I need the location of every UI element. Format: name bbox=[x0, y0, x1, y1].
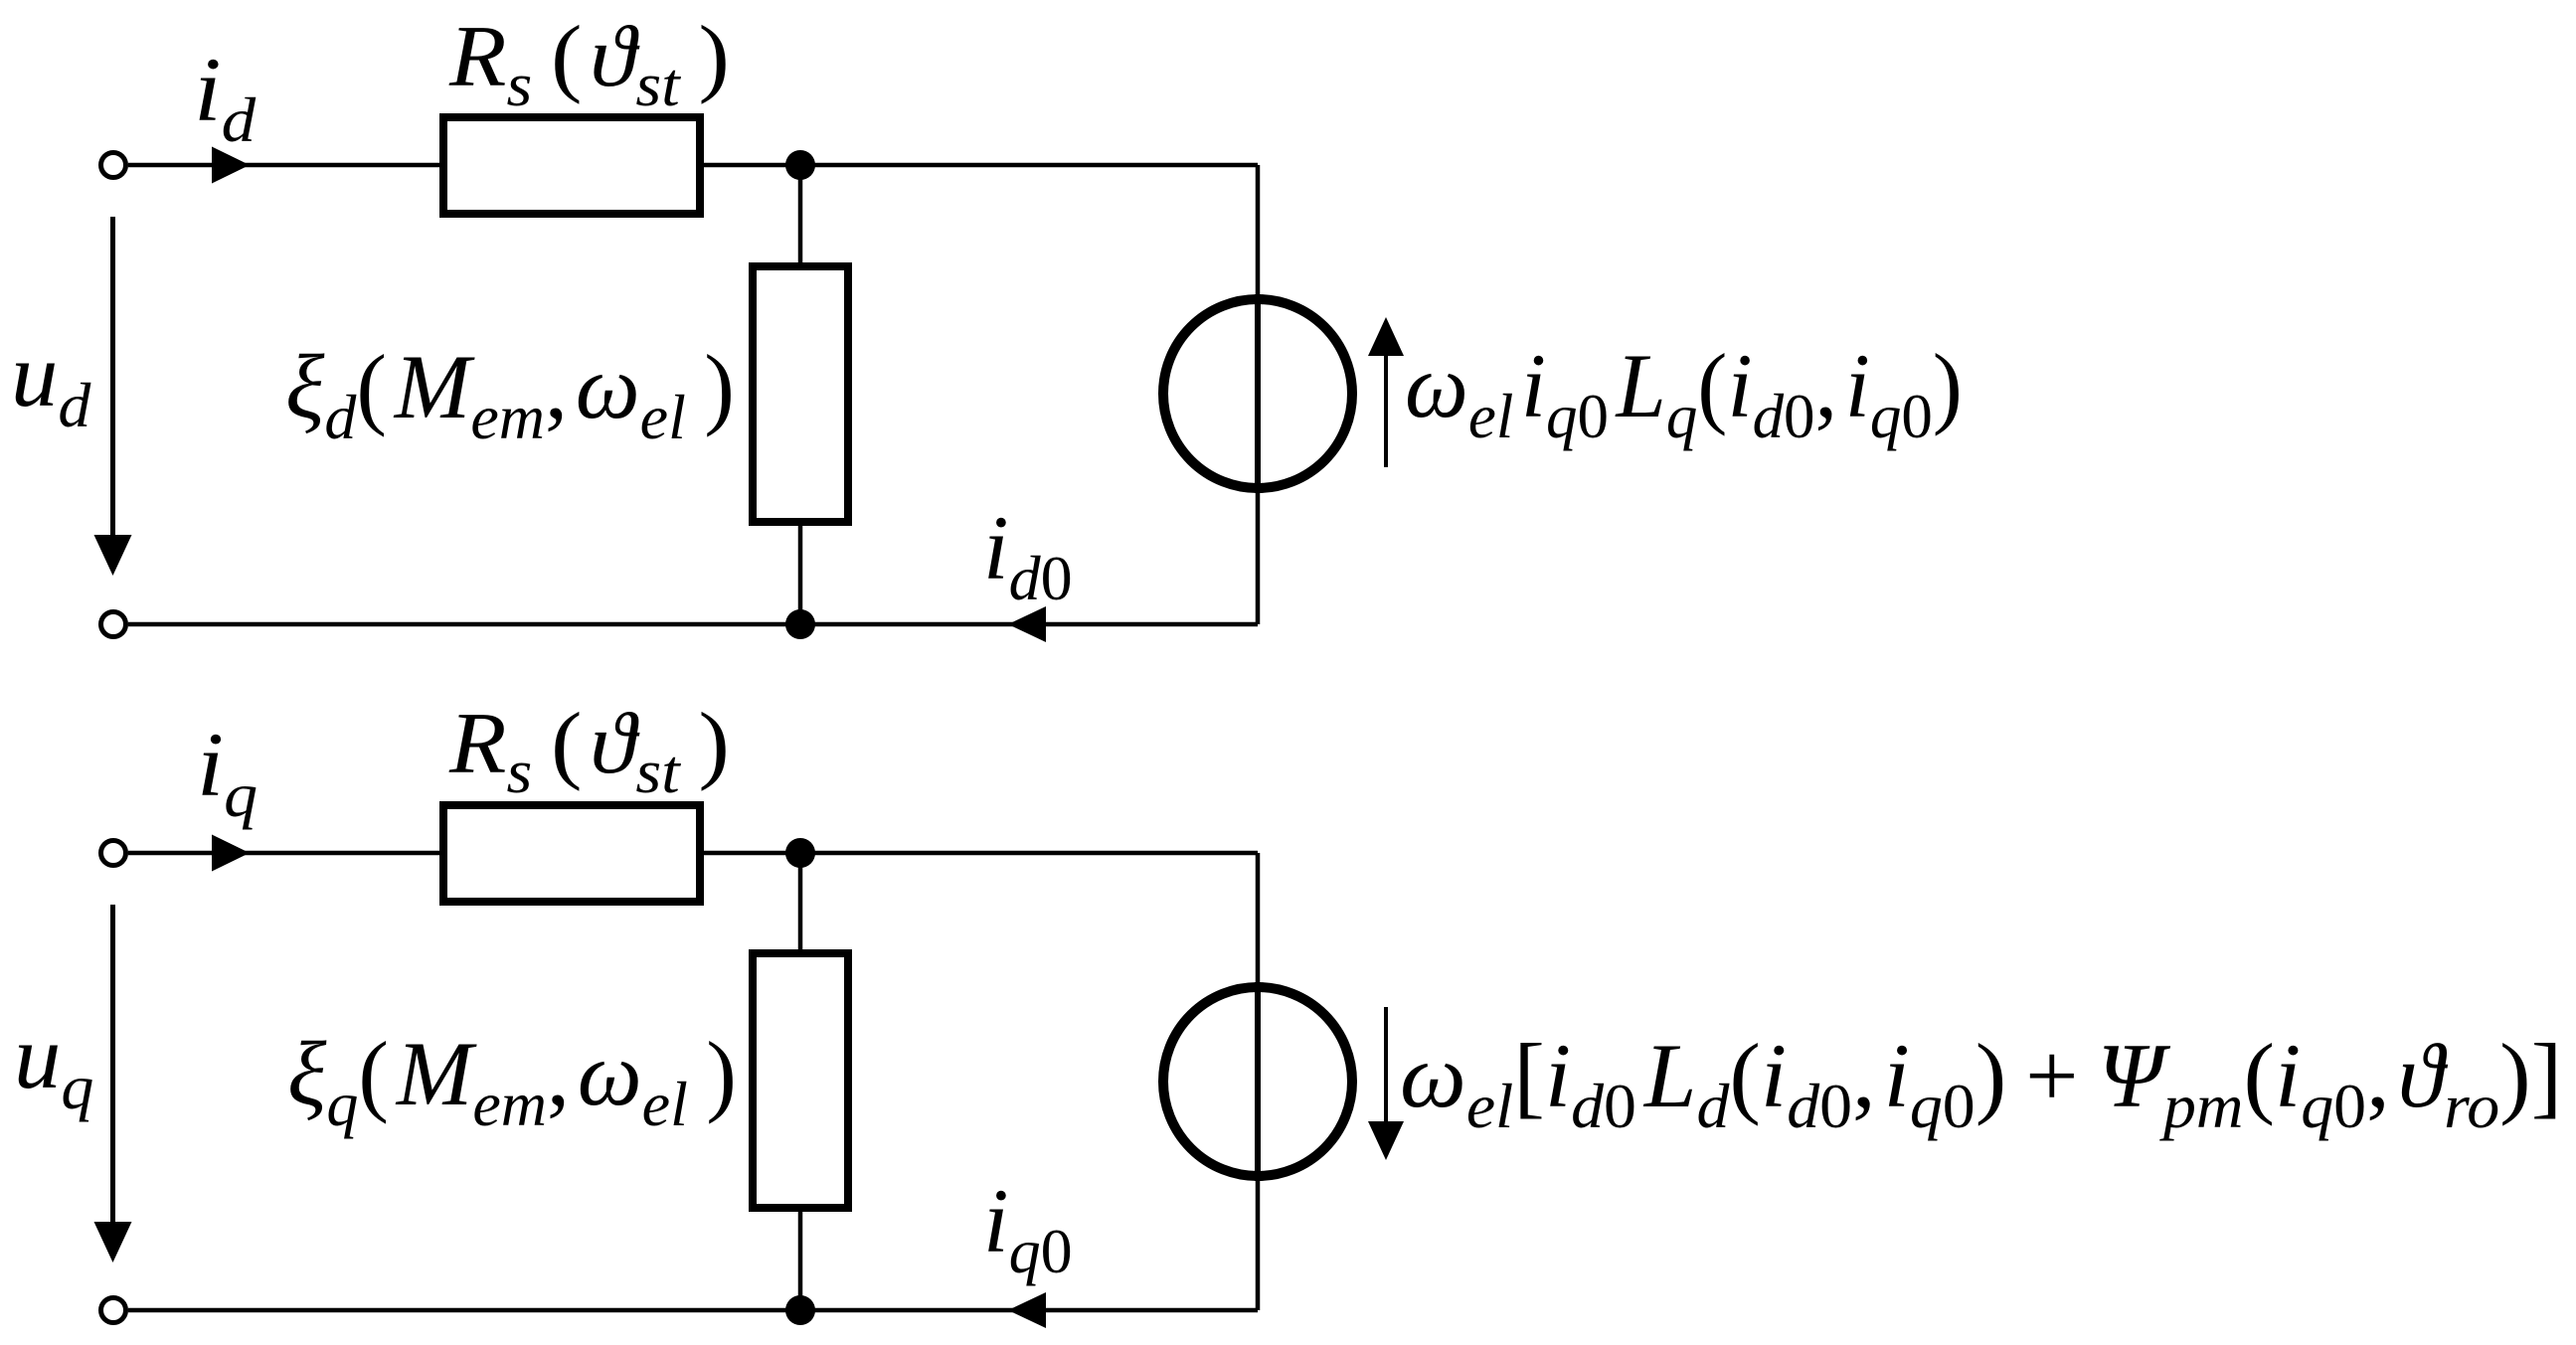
wire: resistor xi_q down to bottom junction bbox=[798, 1208, 803, 1310]
terminal circle bottom-left (q-axis return) bbox=[101, 1298, 126, 1323]
current source line (d-axis) bbox=[1255, 294, 1261, 493]
current arrow i_d0 on bottom rail (pointing left) bbox=[1008, 606, 1046, 642]
current arrow i_d on top wire bbox=[212, 147, 250, 184]
current arrow i_q on top wire bbox=[212, 835, 250, 872]
wire: resistor Rs to right corner (q) bbox=[704, 851, 1258, 856]
resistor xi_q (loss conductance) bbox=[753, 953, 848, 1208]
junction node (bottom, q-axis) bbox=[785, 1295, 815, 1325]
current arrow i_q0 on bottom rail (pointing left) bbox=[1008, 1292, 1046, 1328]
svg-text:Rs ( ϑst ): Rs ( ϑst ) bbox=[448, 695, 730, 806]
terminal circle top-left (d-axis input) bbox=[101, 153, 126, 178]
u_d voltage arrow (down) bbox=[110, 217, 115, 535]
wire: bottom rail (q-axis) bbox=[128, 1308, 1258, 1313]
resistor xi_d (loss conductance) bbox=[753, 266, 848, 522]
wire: right rail (d-axis) bbox=[1256, 165, 1261, 624]
wire: top-left terminal to resistor Rs (q) bbox=[128, 851, 443, 856]
wire: resistor xi_d down to bottom junction bbox=[798, 522, 803, 624]
current source line (q-axis) bbox=[1255, 982, 1261, 1181]
wire: bottom rail (d-axis) bbox=[128, 622, 1258, 627]
wire: junction down to resistor xi_d bbox=[798, 165, 803, 266]
source direction arrow (up) bbox=[1384, 355, 1388, 467]
junction node (top, q-axis) bbox=[785, 838, 815, 868]
wire: top-left terminal to resistor Rs bbox=[128, 163, 443, 168]
terminal circle top-left (q-axis input) bbox=[101, 841, 126, 866]
current source circle (d-axis dependent source) bbox=[1163, 299, 1352, 488]
current source circle (q-axis dependent source) bbox=[1163, 987, 1352, 1176]
terminal circle bottom-left (d-axis return) bbox=[101, 612, 126, 637]
source direction arrow (down) bbox=[1384, 1007, 1388, 1121]
resistor R_s (bottom, stator resistance) bbox=[443, 805, 700, 902]
u_q voltage arrow (down) bbox=[110, 905, 115, 1222]
junction node (top, d-axis) bbox=[785, 150, 815, 180]
svg-text:Rs ( ϑst ): Rs ( ϑst ) bbox=[448, 8, 730, 119]
wire: resistor Rs to right corner bbox=[704, 163, 1258, 168]
junction node (bottom, d-axis) bbox=[785, 609, 815, 639]
wire: junction down to resistor xi_q bbox=[798, 853, 803, 953]
resistor R_s (top, stator resistance) bbox=[443, 117, 700, 214]
wire: right rail (q-axis) bbox=[1256, 853, 1261, 1310]
